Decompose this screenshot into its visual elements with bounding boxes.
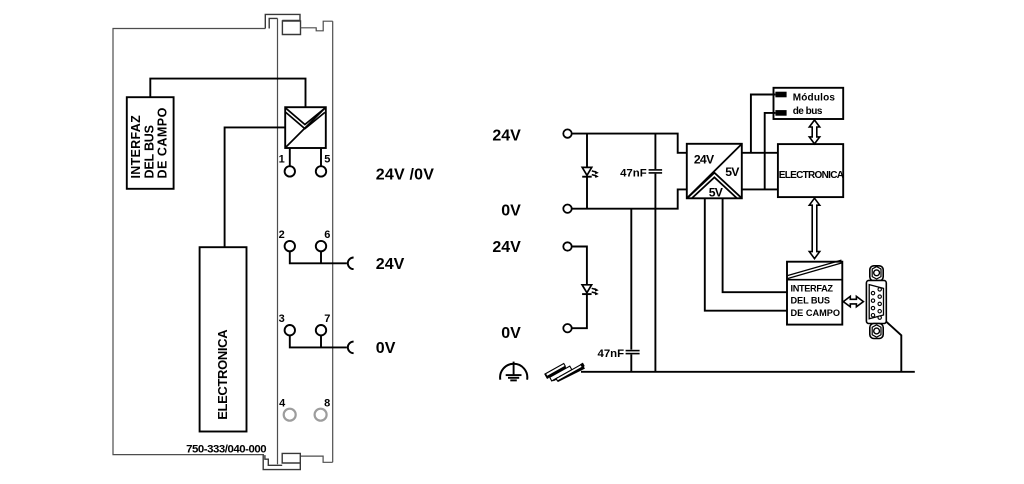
arrow ELECTRONICA-INTERFAZ xyxy=(809,198,819,258)
svg-text:24V: 24V xyxy=(376,256,405,273)
svg-text:47nF: 47nF xyxy=(620,167,647,179)
DB9 bottom ear xyxy=(870,324,883,339)
svg-text:5V: 5V xyxy=(709,185,724,199)
wire Modulos pin1 to 5V xyxy=(751,95,776,153)
svg-text:0V: 0V xyxy=(501,203,521,220)
svg-text:4: 4 xyxy=(279,398,286,410)
module bottom channel xyxy=(282,453,300,463)
wire LED2 branch xyxy=(572,247,587,329)
svg-text:8: 8 xyxy=(324,398,330,410)
wire converter to INTERFAZ B xyxy=(723,198,787,292)
DB9 connector xyxy=(866,266,886,339)
terminal 1 xyxy=(285,166,295,176)
svg-text:24V: 24V xyxy=(694,153,715,167)
box INTERFAZ DEL BUS DE CAMPO (left) xyxy=(127,97,174,189)
capacitor C2 47nF branch xyxy=(626,209,640,372)
svg-text:5V: 5V xyxy=(725,165,740,179)
wire terminals 3,7 to 0V tap xyxy=(290,335,347,347)
box Modulos de bus xyxy=(774,88,844,119)
bus wire (earth) xyxy=(581,371,915,373)
box INTERFAZ DEL BUS DE CAMPO (right) xyxy=(787,260,842,325)
terminal 24V top xyxy=(563,129,571,137)
svg-text:INTERFAZ: INTERFAZ xyxy=(791,284,834,294)
wire Modulos pin2 to 5V xyxy=(765,113,776,189)
svg-text:2: 2 xyxy=(279,229,285,241)
svg-text:DE CAMPO: DE CAMPO xyxy=(156,107,170,178)
svg-text:7: 7 xyxy=(324,313,330,325)
module inner rail vertical xyxy=(277,18,279,464)
wire converter to INTERFAZ A xyxy=(705,198,787,310)
DIN rail symbol xyxy=(544,355,586,387)
terminal 24V lower xyxy=(563,242,571,250)
DB9 flange xyxy=(866,280,886,323)
svg-text:ELECTRONICA: ELECTRONICA xyxy=(215,329,230,420)
terminal 8 (unused) xyxy=(315,409,327,421)
capacitor C1 47nF xyxy=(649,134,663,209)
svg-text:0V: 0V xyxy=(376,340,396,357)
module bottom right profile xyxy=(301,456,333,462)
wire DB9 to bus xyxy=(886,321,901,371)
svg-text:24V: 24V xyxy=(492,127,521,144)
module right edge xyxy=(332,21,334,462)
svg-text:750-333/040-000: 750-333/040-000 xyxy=(186,444,266,456)
svg-text:ELECTRONICA: ELECTRONICA xyxy=(779,170,844,181)
wire C1 line to bus xyxy=(654,209,656,372)
terminal 0V lower xyxy=(563,324,571,332)
module top channel xyxy=(282,21,300,35)
svg-text:3: 3 xyxy=(279,313,285,325)
arc connector 0V xyxy=(348,342,354,354)
terminal 2 xyxy=(285,241,295,251)
svg-text:INTERFAZ: INTERFAZ xyxy=(129,115,143,179)
ground symbol xyxy=(500,362,527,381)
arrow Modulos-ELECTRONICA xyxy=(809,120,819,144)
wire 5V lower (converter to ELECTRONICA) xyxy=(742,188,779,190)
wire 5V upper (converter to ELECTRONICA) xyxy=(742,152,779,154)
module body outline xyxy=(113,29,265,455)
terminal stub 5 xyxy=(320,148,322,166)
DB9 top ear xyxy=(870,266,883,281)
svg-text:24V: 24V xyxy=(492,239,521,256)
svg-text:6: 6 xyxy=(324,229,330,241)
svg-text:Módulos: Módulos xyxy=(793,92,836,103)
svg-text:47nF: 47nF xyxy=(598,348,625,360)
box ELECTRONICA (left) xyxy=(200,247,247,431)
wire 24V rail xyxy=(572,134,687,153)
svg-text:DEL BUS: DEL BUS xyxy=(791,296,830,306)
svg-text:DEL BUS: DEL BUS xyxy=(142,125,156,178)
wire terminals 2,6 to 24V tap xyxy=(290,251,347,263)
LED D2 xyxy=(582,285,599,296)
module bottom hook xyxy=(263,455,300,470)
converter symbol (left module) xyxy=(285,107,326,148)
wire 0V rail xyxy=(572,189,687,208)
terminal 5 xyxy=(316,166,326,176)
terminal 6 xyxy=(316,241,326,251)
svg-text:DE CAMPO: DE CAMPO xyxy=(791,308,841,318)
terminal 7 xyxy=(316,325,326,335)
arc connector 24V xyxy=(348,258,354,270)
terminal 4 (unused) xyxy=(284,409,296,421)
converter U1 (24V to 5V/5V) xyxy=(687,144,742,200)
module top right profile xyxy=(301,21,333,31)
terminal 0V upper xyxy=(563,205,571,213)
DB9 D-shell xyxy=(869,285,883,319)
wire ELECTRONICA to converter (left) xyxy=(225,127,286,247)
wire INTERFAZ to converter (left) xyxy=(150,79,305,108)
module top latch xyxy=(265,14,300,28)
svg-text:0V: 0V xyxy=(501,325,521,342)
LED D1 xyxy=(582,134,599,209)
arrow INTERFAZ-DB9 xyxy=(843,296,863,306)
terminal 3 xyxy=(285,325,295,335)
svg-text:24V /0V: 24V /0V xyxy=(376,166,434,183)
DB9 pin holes xyxy=(871,288,881,320)
terminal stub 1 xyxy=(289,148,291,166)
svg-text:5: 5 xyxy=(324,153,330,165)
svg-text:1: 1 xyxy=(279,153,285,165)
box ELECTRONICA (right) xyxy=(778,144,844,197)
svg-text:de bus: de bus xyxy=(793,106,823,117)
